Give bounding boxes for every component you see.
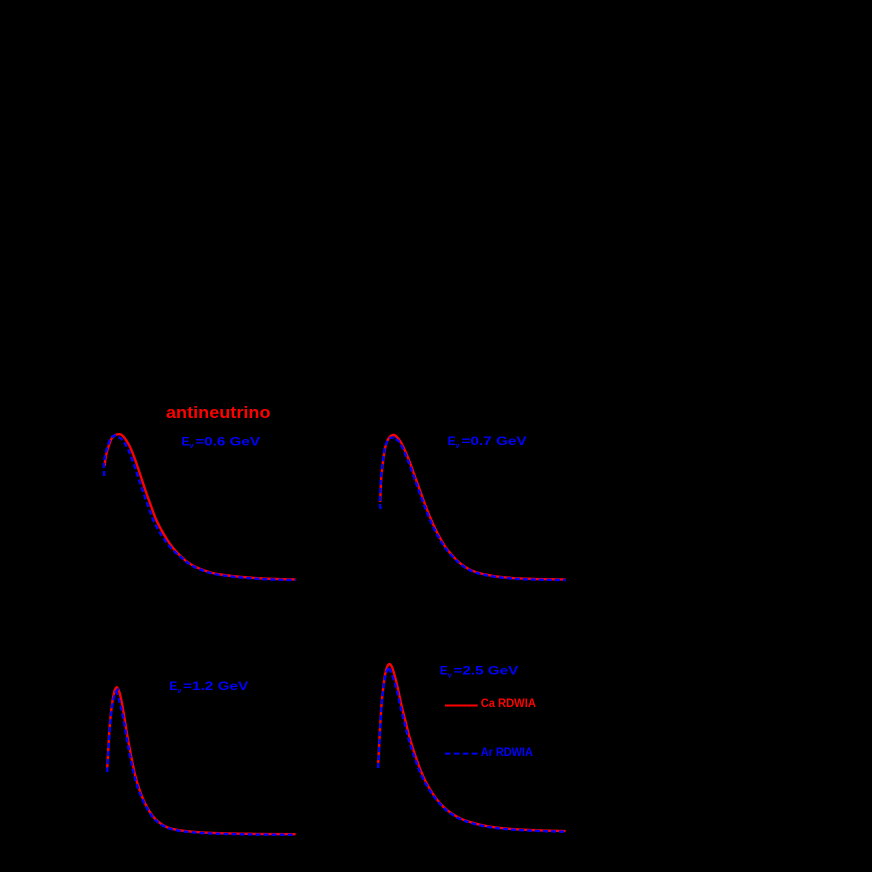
svg-text:=0.7 GeV: =0.7 GeV <box>461 434 526 448</box>
svg-text:Ar RDWIA: Ar RDWIA <box>481 745 533 759</box>
curve Ar RDWIA blue dashed, panel E=1.2 GeV <box>107 689 296 835</box>
curve Ca RDWIA red solid, panel E=2.5 GeV <box>378 664 565 831</box>
svg-text:E: E <box>169 679 177 693</box>
curve Ar RDWIA blue dashed, panel E=0.6 GeV <box>104 435 296 580</box>
svg-text:ν: ν <box>456 443 460 450</box>
curve Ca RDWIA red solid, panel E=0.7 GeV <box>380 435 565 580</box>
curve Ca RDWIA red solid, panel E=1.2 GeV <box>107 687 295 834</box>
svg-text:E: E <box>182 434 190 448</box>
svg-text:=2.5 GeV: =2.5 GeV <box>454 664 519 678</box>
legend line Ca RDWIA (red solid) <box>445 705 478 707</box>
svg-text:Ca RDWIA: Ca RDWIA <box>481 696 536 710</box>
legend line Ar RDWIA (blue dashed) <box>445 753 478 755</box>
label E_nu=1.2 GeV (panel 3) <box>169 679 248 695</box>
svg-text:E: E <box>448 434 456 448</box>
svg-text:=0.6 GeV: =0.6 GeV <box>195 434 260 448</box>
svg-text:E: E <box>440 664 448 678</box>
svg-text:antineutrino: antineutrino <box>166 403 271 422</box>
label E_nu=2.5 GeV (panel 4) <box>440 664 519 680</box>
curve Ar RDWIA blue dashed, panel E=0.7 GeV <box>380 437 566 580</box>
label E_nu=0.7 GeV (panel 2) <box>448 434 527 450</box>
svg-text:ν: ν <box>190 443 194 450</box>
svg-text:=1.2 GeV: =1.2 GeV <box>183 679 248 693</box>
svg-text:ν: ν <box>448 673 452 680</box>
svg-text:ν: ν <box>177 688 181 695</box>
curve Ca RDWIA red solid, panel E=0.6 GeV <box>105 434 296 579</box>
curve Ar RDWIA blue dashed, panel E=2.5 GeV <box>378 667 566 832</box>
label E_nu=0.6 GeV (panel 1) <box>182 434 261 450</box>
